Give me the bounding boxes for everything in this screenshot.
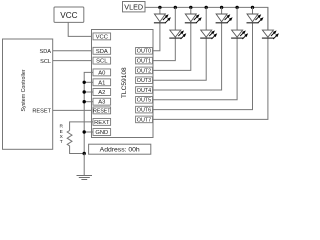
node junction A1 (83, 81, 86, 84)
svg-text:OUT2: OUT2 (137, 68, 151, 74)
svg-text:TLC59108: TLC59108 (121, 67, 128, 98)
LED D4 (200, 7, 217, 39)
pin OUT4 (136, 87, 153, 94)
svg-text:System Controller: System Controller (21, 69, 27, 111)
svg-text:OUT3: OUT3 (137, 78, 151, 84)
power symbol VLED (123, 2, 146, 12)
svg-text:SDA: SDA (96, 49, 108, 55)
wire stub GND (84, 131, 93, 133)
wire SCL (53, 60, 92, 62)
wire stub A3 (84, 101, 93, 103)
pin OUT3 (136, 77, 153, 84)
pin A0 (93, 69, 111, 76)
pin RESET (93, 107, 111, 114)
wire address net A0-A3 to ground (84, 72, 93, 153)
LED D5 (216, 7, 233, 23)
pin OUT5 (136, 97, 153, 104)
svg-text:A0: A0 (98, 70, 105, 76)
resistor REXT (67, 131, 84, 154)
label Address 00h (89, 144, 151, 154)
LED D2 (169, 7, 186, 39)
svg-text:REXT: REXT (94, 120, 110, 126)
wire OUT0 to LED D1 (153, 23, 160, 51)
pin SCL (93, 57, 111, 64)
wire stub A1 (84, 81, 93, 83)
svg-text:SCL: SCL (96, 59, 108, 65)
svg-text:OUT6: OUT6 (137, 108, 151, 114)
svg-text:Address: 00h: Address: 00h (100, 147, 140, 154)
wire RESET (53, 109, 92, 111)
node junction resistor-ground (83, 152, 86, 155)
node junction A3 (83, 100, 86, 103)
pin A1 (93, 79, 111, 86)
svg-text:SCL: SCL (40, 59, 51, 65)
node junction A2 (83, 90, 86, 93)
pin SDA (93, 47, 111, 54)
pin REXT (93, 118, 111, 125)
svg-text:A3: A3 (98, 100, 105, 106)
pin VCC (93, 33, 111, 40)
svg-text:GND: GND (95, 130, 108, 136)
pin OUT7 (136, 116, 153, 123)
svg-text:OUT7: OUT7 (137, 117, 151, 123)
pin GND (93, 129, 111, 136)
wire OUT4 to LED D5 (153, 23, 222, 90)
svg-text:OUT5: OUT5 (137, 98, 151, 104)
wire stub A2 (84, 91, 93, 93)
svg-text:OUT0: OUT0 (137, 49, 151, 55)
LED D7 (247, 7, 264, 23)
svg-text:OUT1: OUT1 (137, 59, 151, 65)
LED D3 (185, 7, 202, 23)
ground (83, 154, 85, 176)
wire OUT6 to LED D7 (153, 23, 253, 110)
pin OUT1 (136, 57, 153, 64)
wire OUT7 to LED D8 (153, 38, 268, 119)
node rail junction 2 (189, 6, 192, 9)
power symbol VCC (54, 7, 84, 22)
pin A3 (93, 98, 111, 105)
LED D6 (231, 7, 248, 39)
svg-text:X: X (60, 134, 64, 140)
node rail junction 5 (235, 6, 238, 9)
svg-text:T: T (60, 139, 63, 145)
LED D8 (262, 7, 279, 39)
LED D1 (154, 7, 171, 23)
pin OUT0 (136, 48, 153, 55)
node rail junction 3 (205, 6, 208, 9)
svg-text:VCC: VCC (96, 34, 108, 40)
wire OUT1 to LED D2 (153, 38, 176, 61)
node rail junction 1 (174, 6, 177, 9)
node rail junction 6 (251, 6, 254, 9)
node junction GND (83, 130, 86, 133)
wire VCC to pin VCC (68, 22, 91, 36)
svg-text:VCC: VCC (60, 11, 77, 20)
svg-text:R: R (59, 124, 63, 130)
svg-text:RESET: RESET (32, 109, 51, 115)
svg-text:VLED: VLED (124, 2, 143, 11)
wire SDA (53, 50, 92, 52)
node rail junction 4 (220, 6, 223, 9)
svg-text:OUT4: OUT4 (137, 88, 151, 94)
wire VLED rail (145, 7, 268, 30)
wire OUT2 to LED D3 (153, 23, 191, 71)
node rail junction 0 (158, 6, 161, 9)
svg-text:SDA: SDA (39, 49, 51, 55)
op-amp U1 TLC59108 body (92, 30, 154, 138)
system controller U2 (3, 39, 53, 149)
wire OUT3 to LED D4 (153, 38, 207, 80)
pin OUT6 (136, 106, 153, 113)
svg-text:RESET: RESET (93, 108, 111, 114)
svg-text:A1: A1 (98, 80, 105, 86)
svg-text:A2: A2 (98, 90, 105, 96)
pin A2 (93, 89, 111, 96)
pin OUT2 (136, 67, 153, 74)
wire REXT pin to resistor (70, 122, 93, 131)
svg-text:E: E (60, 129, 63, 135)
wire OUT5 to LED D6 (153, 38, 238, 100)
